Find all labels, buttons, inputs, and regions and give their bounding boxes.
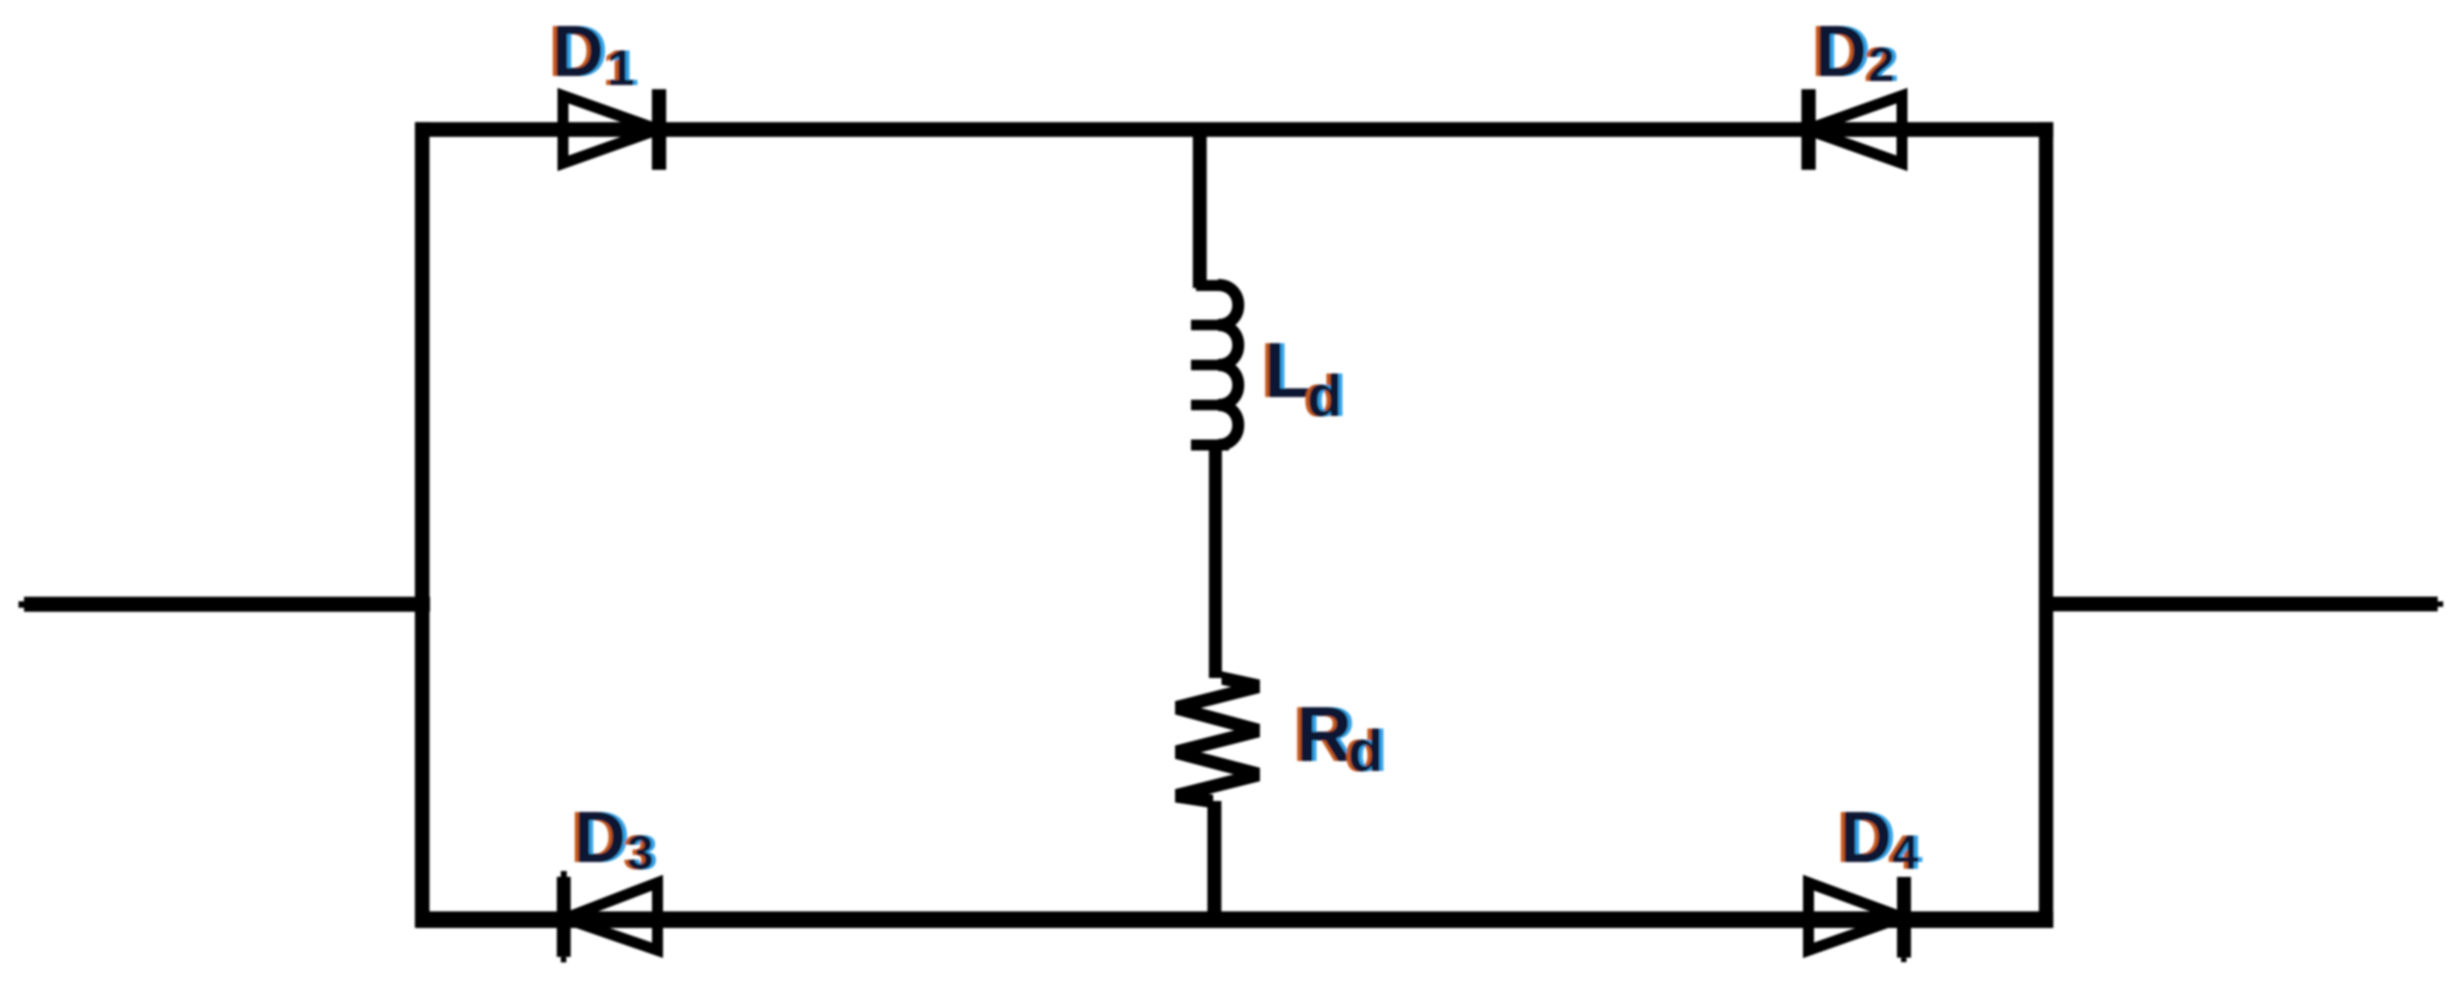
- label D3: [570, 798, 658, 880]
- node: bottom bus / middle branch junction: [1208, 912, 1222, 927]
- wire from top bus to inductor: [1193, 132, 1207, 288]
- svg-text:D: D: [574, 798, 626, 878]
- node: top bus / middle branch junction: [1193, 123, 1207, 136]
- left input lead wire: [19, 601, 431, 607]
- label D1: [548, 12, 639, 96]
- diode D3 (bottom left, pointing left): [557, 871, 658, 962]
- inductor Ld coil: [1191, 285, 1238, 445]
- svg-text:D: D: [1815, 12, 1867, 92]
- diode D2 (top right, pointing left): [1801, 89, 1902, 170]
- svg-text:d: d: [1307, 364, 1342, 429]
- svg-text:D: D: [552, 12, 604, 92]
- right output lead wire: [2039, 601, 2443, 606]
- label D2: [1811, 12, 1899, 92]
- bottom bus wire: [416, 911, 2054, 928]
- svg-text:1: 1: [607, 40, 635, 96]
- left vertical wire: [415, 122, 430, 928]
- diode D4 (bottom right, pointing right): [1809, 877, 1912, 962]
- right vertical wire: [2039, 122, 2053, 928]
- wire from resistor to bottom bus: [1207, 801, 1221, 919]
- svg-text:d: d: [1348, 719, 1383, 784]
- label D4: [1836, 798, 1923, 880]
- svg-text:4: 4: [1892, 827, 1919, 880]
- svg-text:D: D: [1840, 798, 1892, 878]
- label Ld: [1260, 326, 1346, 429]
- resistor Rd zigzag: [1222, 671, 1260, 693]
- top bus wire: [416, 122, 2054, 137]
- wire between inductor and resistor: [1209, 443, 1222, 678]
- diode D1 (top left, pointing right): [563, 89, 666, 170]
- svg-text:2: 2: [1868, 39, 1895, 92]
- svg-text:3: 3: [627, 827, 654, 880]
- label Rd: [1292, 690, 1387, 784]
